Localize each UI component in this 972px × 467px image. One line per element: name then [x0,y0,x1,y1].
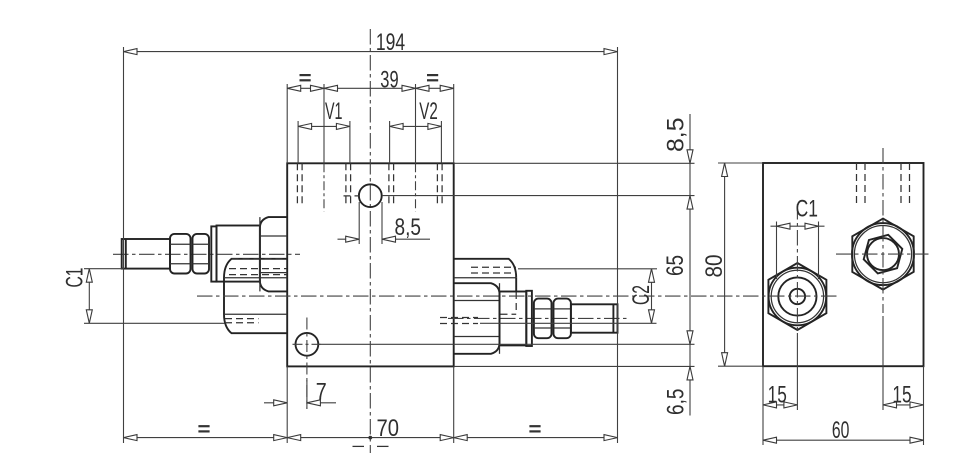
left plug hidden top edge [232,258,288,260]
dimension 39 [324,67,416,94]
port V1 center line [323,163,325,211]
dimension 80 [701,163,728,366]
svg-text:65: 65 [662,255,689,276]
dimension C2 extension lines [480,269,657,324]
dimension 8,5 extension lines [359,202,382,244]
dimension V2 [390,98,442,129]
dimension 7 extension line [287,366,307,443]
end view outline [763,163,924,366]
svg-text:15: 15 [768,382,787,409]
right cartridge hidden thread lines [440,318,478,324]
dimension C1 extension lines left view [84,269,225,324]
valve body side view outline [287,163,454,366]
svg-text:39: 39 [380,67,398,94]
dimension 15 left [763,382,797,409]
body bottom edge extension line [454,365,695,367]
body vertical center line [369,29,371,453]
right cartridge hex body [454,283,500,354]
body top edge extension line [454,162,695,164]
dimension = right [416,74,454,91]
left cartridge hex body [260,217,287,291]
mounting hole horizontal center line [293,343,321,345]
dimension 15 right [883,382,924,409]
right port plug outline [454,259,517,292]
left cartridge sleeve cylinder [217,226,260,282]
svg-text:8,5: 8,5 [663,118,690,153]
bottom dimension extension line right [453,366,455,443]
gauge hole circle top [359,184,382,207]
dimension 194 [124,29,618,56]
port V1 hidden thread lines [297,163,350,207]
left cartridge stem [122,239,170,269]
dimension 6,5 [663,366,694,415]
svg-text:7: 7 [316,379,327,406]
dimension 8,5 vertical right [663,114,694,416]
left cartridge washer [211,226,216,281]
dimension 65 [662,255,693,344]
gauge hole hidden dash left [344,195,360,197]
center line crossing mark [353,436,389,447]
right cartridge washer [526,291,532,346]
svg-text:C1: C1 [796,196,818,223]
port V2 center line [415,163,417,211]
cartridge hex end view [852,219,914,290]
cartridge hex vertical center line [882,148,884,313]
left cartridge center line [113,253,300,255]
dimension C1 end view extension lines [777,222,819,280]
svg-text:V2: V2 [419,98,438,125]
dimension 8,5 horizontal [338,214,431,242]
right cartridge sleeve cylinder [500,292,527,346]
end view hidden thread lines of vertical ports [857,163,910,204]
dimension 194 extension lines [124,47,618,443]
svg-text:8,5: 8,5 [395,214,422,241]
right cartridge locknut 1 [534,299,552,339]
dimension V1 [298,98,350,129]
dimension C1 end view [771,196,825,230]
body step edge line [318,343,453,345]
svg-text:60: 60 [832,417,850,444]
left port plug C1 outline [224,259,287,333]
right cartridge locknut 2 [554,299,571,339]
svg-text:194: 194 [376,29,405,56]
right plug hidden edges [471,267,516,314]
right cartridge center line [448,317,630,319]
dimension row 39 extension lines [287,84,454,163]
svg-text:80: 80 [701,255,728,278]
dimension C2 [628,269,655,324]
dimension 60 [763,417,924,444]
svg-text:V1: V1 [325,98,343,125]
dimension 7 [264,379,336,406]
dimension = left [287,74,324,91]
svg-text:C2: C2 [628,285,655,305]
svg-text:C1: C1 [62,268,89,288]
dimension C1 left view [62,268,93,324]
left plug hidden thread lines upper [229,269,287,275]
svg-text:6,5: 6,5 [663,389,690,416]
dimension 70 [287,415,454,442]
svg-text:15: 15 [892,382,911,409]
end view bottom extension lines [763,316,924,445]
svg-text:70: 70 [377,415,400,442]
port V2 hidden thread lines [389,163,442,207]
mounting hole vertical center line [306,318,308,410]
port C1 long horizontal center line [197,295,838,297]
dimension V1 extension lines [298,121,350,163]
dimension 80 extension lines [718,163,763,366]
dimension V2 extension lines [390,121,442,163]
left cartridge locknut 2 [193,234,210,274]
dimension = bottom right [454,425,618,441]
right cartridge stem [571,304,618,332]
gauge hole center extension line right [382,195,695,197]
port C1 vertical center line [796,204,798,333]
step extension line [454,343,695,345]
mounting hole circle bottom [296,333,319,356]
cartridge hex horizontal center line [836,253,929,255]
dimension = bottom left [124,425,288,441]
left plug hidden thread lines lower [225,319,259,323]
port C1 hex plug end view [768,263,826,330]
left cartridge locknut 1 [170,234,191,274]
